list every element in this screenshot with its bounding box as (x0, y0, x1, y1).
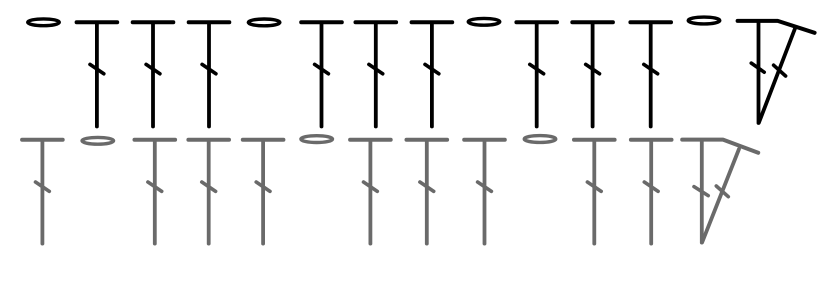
chain ch1 (row 1, gray) (82, 137, 114, 144)
double crochet dc5 (row 1, gray) (350, 140, 391, 244)
double crochet dc2 (row 2, black) (133, 22, 174, 126)
double crochet dc9 (row 2, black) (630, 22, 671, 126)
chain ch3 (row 1, gray) (524, 136, 556, 143)
double crochet dc1 (row 1, gray) (22, 140, 63, 244)
double crochet dc2 (row 1, gray) (135, 140, 176, 244)
double crochet dc8 (row 1, gray) (574, 140, 615, 244)
double crochet dc3 (row 2, black) (189, 22, 230, 126)
dc2tog decrease (row 1, gray) (682, 140, 758, 243)
double crochet dc6 (row 1, gray) (407, 140, 448, 244)
double crochet dc7 (row 1, gray) (464, 140, 505, 244)
double crochet dc4 (row 2, black) (301, 22, 342, 126)
chain ch1 (row 2, black) (28, 19, 60, 26)
double crochet dc6 (row 2, black) (412, 22, 453, 126)
double crochet dc9 (row 1, gray) (631, 140, 672, 244)
double crochet dc8 (row 2, black) (572, 22, 613, 126)
chain ch2 (row 1, gray) (301, 136, 333, 143)
dc2tog decrease (row 2, black) (738, 21, 815, 123)
double crochet dc3 (row 1, gray) (188, 140, 229, 244)
double crochet dc4 (row 1, gray) (243, 140, 284, 244)
chain ch3 (row 2, black) (468, 18, 500, 25)
double crochet dc5 (row 2, black) (356, 22, 397, 126)
double crochet dc7 (row 2, black) (516, 22, 557, 126)
double crochet dc1 (row 2, black) (77, 22, 118, 126)
chain ch4 (row 2, black) (688, 17, 720, 24)
chain ch2 (row 2, black) (248, 19, 280, 26)
